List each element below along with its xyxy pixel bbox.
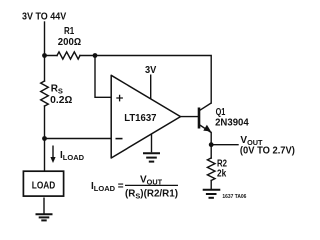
load box — [23, 171, 63, 196]
ground op-amp — [143, 134, 160, 162]
svg-text:200Ω: 200Ω — [58, 37, 82, 48]
pin V+ 3V stub — [150, 75, 152, 100]
svg-text:RS: RS — [51, 84, 63, 96]
svg-text:2N3904: 2N3904 — [215, 117, 249, 128]
formula ILOAD = VOUT/(RS)(R2/R1) — [91, 174, 178, 200]
wire below RS to load node — [44, 106, 46, 170]
svg-text:3V TO 44V: 3V TO 44V — [22, 11, 66, 22]
svg-text:(RS)(R2/R1): (RS)(R2/R1) — [125, 188, 178, 200]
resistor R1 — [57, 52, 80, 59]
resistor R2 — [207, 158, 215, 181]
svg-text:0.2Ω: 0.2Ω — [50, 95, 73, 106]
svg-text:1637 TA06: 1637 TA06 — [222, 194, 246, 200]
wire supply vertical — [44, 22, 46, 81]
svg-text:ILOAD: ILOAD — [60, 150, 85, 162]
ground load — [36, 198, 53, 221]
arrow ILOAD — [52, 146, 54, 159]
node load/minus — [42, 136, 47, 141]
svg-text:2k: 2k — [217, 169, 227, 180]
wire emitter to VOUT node and R2 — [210, 133, 212, 190]
node junction R1 left — [42, 53, 47, 58]
node VOUT — [209, 142, 214, 147]
svg-text:Q1: Q1 — [216, 107, 226, 118]
node junction R1 right — [93, 53, 98, 58]
svg-text:LT1637: LT1637 — [124, 113, 157, 124]
ground R2 — [203, 190, 221, 198]
transistor Q1 2N3904 — [199, 103, 211, 133]
svg-text:3V: 3V — [145, 65, 157, 76]
wire minus input — [45, 138, 112, 140]
svg-text:(0V TO 2.7V): (0V TO 2.7V) — [240, 145, 295, 156]
svg-text:R1: R1 — [64, 26, 75, 37]
op-amp U1 LT1637 — [111, 75, 180, 158]
wire top rail — [45, 56, 212, 104]
wire VOUT — [211, 144, 238, 146]
emitter arrowhead — [203, 125, 211, 132]
svg-text:VOUT: VOUT — [140, 174, 163, 186]
svg-text:ILOAD =: ILOAD = — [91, 181, 124, 193]
svg-text:LOAD: LOAD — [32, 180, 56, 191]
resistor RS — [41, 81, 49, 106]
wire plus input — [95, 56, 111, 98]
wire op-amp output to base — [181, 116, 198, 118]
